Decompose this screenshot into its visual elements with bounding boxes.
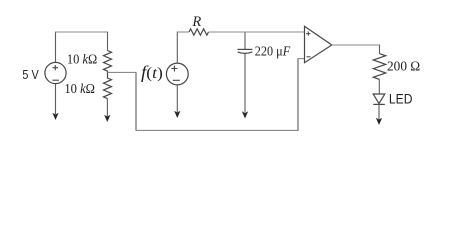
capacitor C1 220uF [238, 33, 253, 113]
wire: top rail from R to op-amp [209, 31, 305, 33]
wire: op-amp output [332, 44, 380, 46]
source f(t) [166, 63, 188, 85]
resistor R1 (10 kOhm upper) [104, 51, 112, 73]
wire: V1 bottom lead [55, 84, 57, 114]
wire: f(t) to resistor R [177, 31, 189, 33]
wire: f(t) top lead [176, 32, 178, 63]
svg-text:200 Ω: 200 Ω [387, 59, 420, 74]
wire: feedback riser to op-amp [297, 59, 299, 131]
wire: resistor to LED [378, 79, 380, 94]
svg-text:10 kΩ: 10 kΩ [64, 82, 95, 97]
ground arrow below capacitor [242, 111, 248, 118]
ground arrow below V1 [52, 113, 58, 120]
svg-text:5 V: 5 V [22, 68, 39, 82]
wire: LED bottom lead [378, 104, 380, 119]
LED D1 [373, 94, 385, 104]
wire: feedback vertical down [135, 72, 137, 130]
wire: op-amp inverting input stub [297, 58, 304, 60]
ground arrow below f(t) [174, 111, 180, 118]
svg-text:10 kΩ: 10 kΩ [67, 53, 97, 68]
svg-text:f(t): f(t) [141, 62, 163, 82]
wire: V1 top lead up [55, 32, 57, 63]
resistor R2 (10 kOhm lower) [104, 72, 112, 98]
svg-text:R: R [191, 14, 201, 30]
wire: divider tap horizontal [108, 71, 137, 73]
svg-text:220 μF: 220 μF [255, 45, 291, 60]
wire: top-left horizontal to divider [55, 31, 108, 33]
wire: divider bottom lead [106, 99, 108, 116]
wire: f(t) bottom lead [176, 85, 178, 112]
wire: output corner down [379, 45, 381, 54]
svg-text:LED: LED [389, 92, 413, 107]
ground arrow below LED [376, 118, 382, 125]
ground arrow below divider [104, 115, 110, 122]
op-amp U1 [305, 26, 332, 62]
voltage source V1 (5 V) [45, 62, 66, 83]
resistor R (horizontal) [189, 29, 208, 35]
wire: divider vertical into R1 [107, 32, 109, 51]
resistor R3 (200 Ohm) [373, 54, 385, 80]
wire: feedback bottom rail [135, 129, 298, 131]
